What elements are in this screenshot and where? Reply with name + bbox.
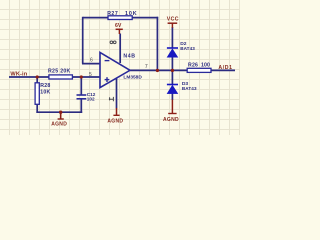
wire feedback left vertical <box>82 17 84 64</box>
svg-text:R25: R25 <box>48 69 58 75</box>
diode D3 triangle <box>167 85 178 93</box>
wire WK-in input to R25 <box>9 76 50 78</box>
op-amp plus sign <box>105 79 110 81</box>
svg-text:AGND: AGND <box>163 117 179 123</box>
svg-text:R28: R28 <box>40 83 50 89</box>
wire VCC to D2 cathode <box>171 27 173 48</box>
junction node diodes/output <box>171 69 174 72</box>
wire R28 branch down from junction <box>36 77 38 83</box>
wire pin 4 down from op-amp <box>116 79 118 109</box>
op-amp minus sign <box>105 60 110 62</box>
power port AGND (ground rail) <box>59 111 62 114</box>
resistor R28 body <box>35 83 39 105</box>
svg-text:5: 5 <box>89 72 92 78</box>
wire feedback top left segment <box>83 17 109 19</box>
wire C12 branch down from pin5 net <box>80 77 82 95</box>
pin number 4 (rotated) <box>109 97 114 101</box>
svg-text:VCC: VCC <box>167 17 179 23</box>
power port AGND (op-amp pin 4) <box>116 108 118 115</box>
svg-text:6: 6 <box>90 58 93 64</box>
svg-text:N4B: N4B <box>123 53 135 59</box>
wire D2 anode to output node <box>171 57 173 71</box>
svg-text:10K: 10K <box>40 90 50 96</box>
svg-text:7: 7 <box>145 64 148 70</box>
resistor R25 body <box>49 75 73 79</box>
power port AGND (below D3) <box>171 100 173 114</box>
resistor R26 body <box>187 68 211 72</box>
wire V+ pin 8 into op-amp <box>119 34 121 64</box>
wire output node to D3 cathode <box>171 70 173 85</box>
wire feedback top right segment <box>132 17 158 19</box>
wire ground rail R28 to C12 <box>36 111 82 113</box>
svg-text:102: 102 <box>87 97 95 102</box>
junction node R28/WK-in <box>36 75 39 78</box>
capacitor C12 plates <box>77 94 87 96</box>
svg-text:100: 100 <box>201 63 210 69</box>
diode D3 cathode bar <box>167 84 178 86</box>
wire R26 to A/D1 <box>211 69 235 71</box>
wire op-amp output (pin 7) to R26 <box>130 69 188 71</box>
svg-text:20K: 20K <box>60 69 70 75</box>
resistor R27 body <box>108 16 132 20</box>
wire R25 to op-amp +input (pin 5) <box>72 76 100 78</box>
wire D3 anode to AGND <box>171 93 173 100</box>
svg-text:6V: 6V <box>115 23 122 29</box>
junction node feedback/output <box>156 69 159 72</box>
diode D2 cathode bar <box>167 47 178 49</box>
svg-text:R26: R26 <box>188 63 198 69</box>
wire feedback right vertical <box>156 17 158 71</box>
svg-text:WK-in: WK-in <box>10 72 27 78</box>
svg-text:R27: R27 <box>107 11 118 17</box>
op-amp U1 triangle <box>100 52 130 87</box>
svg-text:LM358D: LM358D <box>123 75 142 81</box>
svg-text:BAT43: BAT43 <box>180 46 195 51</box>
pin number 8 (rotated) <box>110 41 113 44</box>
svg-text:10K: 10K <box>125 11 138 17</box>
wire op-amp -input (pin 6) <box>82 63 100 65</box>
junction node C12/pin5 <box>80 75 83 78</box>
diode D2 triangle <box>167 49 178 57</box>
svg-text:AGND: AGND <box>107 118 123 124</box>
svg-text:AGND: AGND <box>51 122 67 128</box>
svg-text:A/D1: A/D1 <box>218 65 232 71</box>
wire C12 bottom to ground rail <box>80 99 82 113</box>
svg-text:BAT43: BAT43 <box>182 86 197 91</box>
wire R28 bottom to ground rail <box>36 104 38 113</box>
background sheet <box>0 0 240 135</box>
